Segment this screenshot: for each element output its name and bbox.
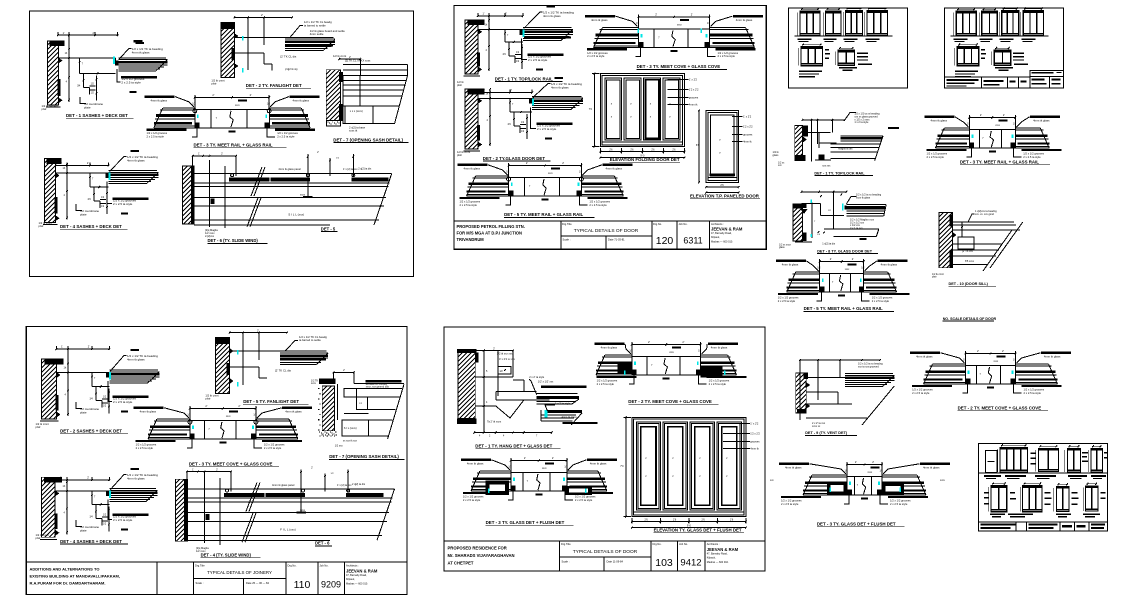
svg-text:Drg.No.: Drg.No.	[653, 222, 662, 226]
elevation D4 dimension lines	[632, 521, 746, 523]
svg-text:Madras — 600 010.: Madras — 600 010.	[711, 241, 733, 244]
svg-text:plstr: plstr	[39, 224, 44, 228]
svg-text:47, Barnaby Road,: 47, Barnaby Road,	[711, 232, 732, 235]
svg-text:PROPOSED RESIDENCE FOR: PROPOSED RESIDENCE FOR	[448, 546, 507, 551]
loose L5 corner blocks	[820, 287, 825, 293]
detail D1 vertical dims	[483, 351, 485, 434]
detail D1 top dim	[475, 350, 513, 352]
svg-text:Architects :: Architects :	[707, 542, 720, 546]
svg-text:DET - 2 TY. MEET COVE + GLAS: DET - 2 TY. MEET COVE + GLASS COVE	[628, 399, 712, 404]
svg-text:1/2 x 1/2 grooves: 1/2 x 1/2 grooves	[927, 151, 948, 155]
detail D1 lower planks	[548, 410, 583, 413]
detail C3 dimension lines	[190, 408, 256, 410]
svg-text:xxxx, xxx gsnrnd dds: xxxx, xxx gsnrnd dds	[366, 386, 390, 389]
svg-text:AT CHETPET: AT CHETPET	[448, 561, 474, 566]
svg-text:DET - 3 TY. MEET COVE + GLAS: DET - 3 TY. MEET COVE + GLASS COVE	[189, 461, 273, 466]
mini captions row 1	[954, 38, 968, 40]
svg-text:Maglia ta dts: Maglia ta dts	[838, 147, 853, 150]
loose L8 leader notes	[779, 463, 809, 466]
svg-text:plate: plate	[80, 410, 87, 414]
svg-text:DET - 2 SASHES + DECK DET: DET - 2 SASHES + DECK DET	[60, 429, 122, 434]
svg-text:DET - 5 TY. FANLIGHT DET: DET - 5 TY. FANLIGHT DET	[243, 399, 299, 404]
detail C7 sash trapezoid	[354, 382, 404, 384]
svg-text:2 x 2.5 ta style: 2 x 2.5 ta style	[277, 135, 295, 139]
detail C1 wall section	[42, 359, 57, 419]
detail A3 leader notes	[145, 95, 175, 98]
svg-text:4mm tk glass: 4mm tk glass	[127, 476, 145, 480]
detail B2 frame section	[478, 97, 532, 99]
L3 lower leaf	[833, 228, 878, 230]
L1 leader notes	[845, 113, 856, 120]
detail C1 dimension lines	[56, 348, 109, 350]
svg-text:4mm tk glass: 4mm tk glass	[132, 50, 150, 54]
detail C2 wall section	[215, 338, 229, 394]
elevation B4 dimension lines	[600, 151, 684, 153]
detail B6 left planks	[476, 175, 509, 177]
svg-text:4mm tk glass: 4mm tk glass	[590, 462, 607, 466]
mini sheet 3 caption blobs row1	[984, 475, 1001, 477]
svg-text:1' x 2'2: 1' x 2'2	[750, 421, 759, 425]
svg-text:4mm tk glass: 4mm tk glass	[151, 98, 168, 102]
detail C4 leader notes	[110, 475, 126, 490]
svg-text:JEEVAN & RAM: JEEVAN & RAM	[711, 227, 743, 232]
svg-text:DET - 1 TY. TOP/LOCK RAIL: DET - 1 TY. TOP/LOCK RAIL	[814, 171, 865, 175]
svg-text:Date 11-09-84: Date 11-09-84	[607, 560, 624, 564]
svg-text:2 x 2.5 ta style: 2 x 2.5 ta style	[147, 135, 165, 139]
svg-text:1/2 x 1/2 grooves: 1/2 x 1/2 grooves	[1023, 151, 1044, 155]
svg-text:[2' TK xxx: [2' TK xxx	[962, 250, 974, 253]
detail A6 right dim risers	[307, 154, 309, 176]
svg-text:TYPICAL DETAILS OF DOOR: TYPICAL DETAILS OF DOOR	[574, 228, 639, 234]
loose L7 corner blocks	[966, 379, 971, 385]
svg-text:1 x 2 ta style: 1 x 2 ta style	[854, 121, 869, 124]
detail B3 corner blocks	[639, 42, 644, 48]
svg-text:JEEVAN & RAM: JEEVAN & RAM	[707, 547, 739, 552]
detail C7 wall section	[322, 386, 334, 431]
detail C4 step web	[95, 504, 97, 518]
svg-text:Kilpauk,: Kilpauk,	[346, 578, 355, 581]
svg-text:DET - 3 TY. GLASS DET + FLUS: DET - 3 TY. GLASS DET + FLUSH DET	[817, 522, 896, 527]
L4 wall section	[939, 213, 952, 268]
svg-text:Date 71-03-81: Date 71-03-81	[608, 238, 625, 242]
detail B6 centre rail box	[509, 178, 582, 197]
svg-text:xxxx: xxxx	[300, 194, 306, 197]
detail D2 centre rail box	[632, 357, 701, 376]
svg-text:2 x 2.5 ta style: 2 x 2.5 ta style	[113, 518, 133, 522]
detail A3 centre rail box	[195, 109, 269, 128]
svg-text:DET - 2 TY. MEET COVE + GLAS: DET - 2 TY. MEET COVE + GLASS COVE	[958, 406, 1042, 411]
svg-text:DET - 4 SASHES + DECK DET: DET - 4 SASHES + DECK DET	[60, 224, 122, 229]
svg-text:plate: plate	[80, 212, 87, 216]
detail C1 wall base note	[40, 420, 58, 422]
svg-text:9209: 9209	[321, 580, 341, 590]
svg-text:4mm settle: 4mm settle	[310, 32, 324, 36]
detail D1 small dim boxes	[498, 367, 511, 375]
svg-text:4mm tk glass: 4mm tk glass	[127, 357, 145, 361]
detail A6 sill planks	[229, 178, 269, 182]
svg-text:Scale :: Scale :	[562, 560, 570, 564]
svg-text:Kilpauk,: Kilpauk,	[711, 236, 720, 239]
elevation B5 outer frame	[706, 111, 739, 183]
svg-text:[2' TK CL dts: [2' TK CL dts	[275, 369, 292, 373]
svg-text:4mm tk glass: 4mm tk glass	[782, 263, 799, 267]
detail B2 leader notes	[533, 84, 550, 98]
svg-text:TRIVANDRUM: TRIVANDRUM	[457, 237, 485, 242]
detail D2 corner blocks	[632, 370, 637, 376]
detail A7 top frame lines	[343, 64, 407, 66]
detail C3 left planks	[157, 418, 190, 420]
detail B3 centre rail box	[639, 29, 710, 48]
detail D2 black blocks	[618, 363, 632, 374]
svg-text:1 x 2' ta style: 1 x 2' ta style	[555, 401, 571, 405]
svg-text:2 x 2.5 ta style: 2 x 2.5 ta style	[528, 58, 548, 62]
loose L5 dimension lines	[820, 261, 864, 263]
detail A6 dim lines	[193, 155, 236, 157]
detail A3 left planks	[163, 107, 195, 109]
loose L8 centre rail box	[847, 477, 882, 496]
svg-text:Drg.No.: Drg.No.	[288, 564, 297, 568]
svg-text:1/2 x 1/2 grooves: 1/2 x 1/2 grooves	[709, 378, 730, 382]
svg-text:plstr: plstr	[42, 107, 47, 111]
svg-text:4mm tk glass: 4mm tk glass	[931, 119, 948, 123]
detail B2 shutter planks	[529, 99, 532, 104]
svg-text:2 x 2.5 ta style: 2 x 2.5 ta style	[872, 299, 890, 303]
detail B3 right planks	[710, 26, 746, 28]
svg-text:DET - 3 TY. MEET RAIL + GLAS: DET - 3 TY. MEET RAIL + GLASS RAIL	[960, 160, 1039, 165]
sheet C title block	[26, 561, 407, 563]
detail B3 left planks	[603, 26, 639, 28]
detail D2 leader notes	[595, 343, 625, 346]
svg-text:DET - 9 (TY. VENT DET): DET - 9 (TY. VENT DET)	[805, 431, 848, 435]
svg-text:plstr: plstr	[932, 276, 937, 279]
L3 planks	[845, 206, 847, 210]
svg-text:DET - 1 SASHES + DECK DET: DET - 1 SASHES + DECK DET	[66, 113, 128, 118]
mini sheet border	[945, 8, 1064, 88]
svg-text:110: 110	[294, 579, 311, 591]
svg-text:Drg.Title: Drg.Title	[562, 222, 572, 226]
svg-text:4mm tk glass panel: 4mm tk glass panel	[272, 483, 295, 487]
svg-text:1/2 x 1/2 grooves: 1/2 x 1/2 grooves	[589, 199, 610, 203]
mini ground line row 1	[951, 35, 1049, 37]
svg-text:xx xxx tk xxx: xx xxx tk xxx	[343, 439, 358, 442]
svg-text:4mm tk glass: 4mm tk glass	[736, 18, 753, 22]
svg-text:DET - 2 TY.GLASS DOOR DET: DET - 2 TY.GLASS DOOR DET	[483, 156, 546, 161]
svg-text:DET - 5 TY. MEET RAIL + GLAS: DET - 5 TY. MEET RAIL + GLASS RAIL	[804, 306, 883, 311]
detail A2 wall section	[221, 23, 234, 78]
svg-text:xxxx: xxxx	[300, 509, 306, 512]
detail B1 extra plank bar	[524, 37, 571, 39]
detail C3 centre rail box	[190, 421, 256, 440]
svg-text:FOR M/S MGA AT D.P.I JUNCTIO: FOR M/S MGA AT D.P.I JUNCTION	[457, 231, 523, 236]
svg-text:DET - 7 (OPENING SASH DETAIL): DET - 7 (OPENING SASH DETAIL)	[329, 454, 399, 459]
svg-text:ELEVATION TY. GLASS DET + FLU: ELEVATION TY. GLASS DET + FLUSH DET	[654, 528, 742, 533]
mini sheet 3 door leaf	[985, 450, 997, 472]
detail C3 leader notes	[134, 407, 164, 410]
mini sheet 3 row1 glyphs	[1000, 448, 1028, 473]
detail A4 dimension lines	[55, 165, 108, 167]
mini sheet 3 caption blobs row2	[990, 514, 1005, 516]
detail A1 wall section	[47, 41, 58, 105]
svg-text:S I L (xxxx): S I L (xxxx)	[344, 426, 357, 430]
svg-text:1/2 x 1/2 grooves: 1/2 x 1/2 grooves	[718, 51, 739, 55]
svg-text:plstr: plstr	[457, 153, 462, 157]
mini row 2 notes	[1013, 53, 1024, 54]
detail D2 right planks	[701, 354, 728, 356]
detail C1 frame section	[56, 372, 109, 374]
detail A7 dimension lines	[339, 58, 360, 60]
svg-text:grooves: grooves	[743, 133, 753, 137]
svg-text:Kilpauk,: Kilpauk,	[707, 557, 716, 560]
detail C4 frame section	[55, 490, 109, 492]
svg-text:DET - 1 TY. HANG DET + GLASS: DET - 1 TY. HANG DET + GLASS DET	[475, 444, 552, 449]
svg-text:1'2 x 2'2: 1'2 x 2'2	[689, 88, 699, 92]
detail C4 wall base note	[40, 538, 57, 540]
detail B1 step web	[508, 42, 510, 56]
mini title bottom strip	[945, 76, 1030, 78]
elevation D4 left dim	[625, 417, 627, 516]
detail B6 leader notes	[458, 164, 488, 167]
loose L5 left planks	[796, 271, 820, 273]
detail C7 stipple plaster band	[318, 388, 319, 389]
svg-text:Scale :: Scale :	[196, 581, 204, 585]
svg-text:plstr: plstr	[211, 82, 216, 86]
svg-text:2 x 2.5 ta style: 2 x 2.5 ta style	[778, 299, 796, 303]
detail C6 wall section	[175, 479, 187, 541]
detail D2 dimension lines	[632, 344, 701, 346]
svg-text:1/2 x 1/2 grooves: 1/2 x 1/2 grooves	[147, 131, 168, 135]
elevation B4 leader notes	[668, 79, 689, 81]
svg-text:4mm tk: 4mm tk	[689, 103, 698, 107]
L3 leader notes	[846, 197, 856, 205]
svg-text:TYPICAL DETAILS OF DOOR: TYPICAL DETAILS OF DOOR	[573, 549, 638, 555]
detail B1 main vertical dim	[488, 16, 490, 71]
svg-text:Madras — 600 010.: Madras — 600 010.	[346, 583, 368, 586]
sheet D title block	[444, 540, 765, 542]
detail B2 main vertical dim	[489, 93, 491, 147]
svg-text:6311: 6311	[683, 236, 702, 246]
mini sheet 3 (bottom right)	[979, 443, 1108, 531]
svg-text:4mm tk glass: 4mm tk glass	[543, 14, 561, 18]
svg-text:4mm tk glass: 4mm tk glass	[467, 462, 484, 466]
elevation B4 bottom rail	[602, 141, 682, 143]
mini sheet 3 divider	[979, 472, 1108, 474]
svg-text:2 x 2.5 ta style: 2 x 2.5 ta style	[537, 127, 557, 131]
svg-text:1/2 x 1/2 grooves: 1/2 x 1/2 grooves	[587, 51, 608, 55]
loose L7 leader notes	[910, 352, 940, 355]
svg-text:1' x [2] ta xxx: 1' x [2] ta xxx	[343, 168, 358, 171]
svg-text:4mm tk glass: 4mm tk glass	[711, 346, 728, 350]
svg-text:4mm tk glass: 4mm tk glass	[562, 415, 578, 419]
svg-text:DET - 8 TY. GLASS DOOR DET: DET - 8 TY. GLASS DOOR DET	[817, 249, 873, 253]
svg-text:47, Barnaby Road,: 47, Barnaby Road,	[707, 552, 728, 555]
svg-text:xxxx: xxxx	[311, 382, 317, 385]
detail A4 shutter planks	[105, 173, 108, 178]
svg-text:2 x 2.5 ta style: 2 x 2.5 ta style	[113, 400, 133, 404]
loose L2 centre rail box	[969, 130, 1015, 149]
detail D3 corner blocks	[511, 486, 516, 492]
svg-text:1/2 x 1/2 grooves: 1/2 x 1/2 grooves	[778, 295, 799, 299]
svg-text:DET - 7 (OPENING SASH DETAIL): DET - 7 (OPENING SASH DETAIL)	[333, 137, 403, 142]
mini elevation row 1	[956, 11, 976, 36]
svg-text:ELEVATION T.P. PANELED DOOR: ELEVATION T.P. PANELED DOOR	[690, 194, 760, 199]
svg-text:1' x 2'2: 1' x 2'2	[689, 78, 698, 82]
loose L2 right planks	[1015, 127, 1040, 129]
detail C1 shutter planks	[106, 373, 109, 378]
mini title box right	[1030, 71, 1064, 88]
detail A4 leader notes	[110, 157, 127, 172]
detail A4 frame section	[55, 172, 108, 174]
svg-text:Date 25 — 06 — 84: Date 25 — 06 — 84	[246, 581, 269, 585]
svg-text:4mm tk glass: 4mm tk glass	[293, 98, 310, 102]
svg-text:4mm tk glass: 4mm tk glass	[591, 18, 608, 22]
mini text block bottom-left	[799, 71, 822, 72]
loose L2 left planks	[944, 127, 969, 129]
detail A1 step web	[83, 73, 85, 87]
detail B2 wall section	[465, 89, 478, 149]
detail B6 corner blocks	[509, 191, 514, 197]
svg-text:4mm tk glass: 4mm tk glass	[127, 158, 145, 162]
L6 planks	[845, 373, 893, 375]
mini ground line row 1	[795, 35, 893, 37]
svg-text:1/2 tk xxx xxx: 1/2 tk xxx xxx	[497, 352, 513, 356]
svg-text:JEEVAN & RAM: JEEVAN & RAM	[346, 569, 378, 574]
elevation B5 dims	[698, 111, 700, 183]
svg-text:p'q[2 tk sty: p'q[2 tk sty	[285, 67, 298, 71]
svg-text:2 x 2.5 ta style: 2 x 2.5 ta style	[463, 498, 481, 502]
svg-text:1/2 x 1/2 grooves: 1/2 x 1/2 grooves	[463, 494, 484, 498]
detail B2 dimension lines	[478, 92, 532, 94]
svg-text:ELEVATION FOLDING DOOR DET: ELEVATION FOLDING DOOR DET	[610, 157, 680, 162]
detail A6 wall section	[183, 166, 194, 224]
L3 frame web	[802, 203, 821, 205]
svg-text:NO. SCALE DETAILS OF DOOR: NO. SCALE DETAILS OF DOOR	[943, 317, 997, 321]
mini caption row 2	[839, 67, 857, 68]
svg-text:1/2 x 1/2 grooves: 1/2 x 1/2 grooves	[890, 498, 911, 502]
detail D3 dimension lines	[511, 460, 567, 462]
svg-text:F I L L (xxx): F I L L (xxx)	[280, 528, 296, 532]
svg-text:9412: 9412	[680, 558, 701, 569]
svg-text:4mm tk glass: 4mm tk glass	[785, 466, 802, 470]
L1 wall section	[795, 125, 803, 160]
svg-text:R.A.PURAM FOR Dr. DAMDARTHA: R.A.PURAM FOR Dr. DAMDARTHARAM.	[30, 581, 106, 586]
svg-text:DET - 6: DET - 6	[315, 541, 330, 546]
svg-text:2 x 2.5 ta style: 2 x 2.5 ta style	[589, 203, 607, 207]
svg-text:2 x 2.5 ta style: 2 x 2.5 ta style	[1023, 155, 1041, 159]
svg-text:DET - 4 (TY. SLIDE WIND): DET - 4 (TY. SLIDE WIND)	[201, 552, 252, 557]
svg-text:2 q[2] ta dts: 2 q[2] ta dts	[358, 168, 372, 171]
svg-text:Drg.Title: Drg.Title	[561, 542, 571, 546]
detail D1 wall section	[458, 353, 475, 419]
svg-text:DET - 6 (TY. SLIDE WIND): DET - 6 (TY. SLIDE WIND)	[208, 238, 259, 243]
loose L7 centre rail box	[966, 366, 1016, 385]
svg-text:2 x 2.5 ta style: 2 x 2.5 ta style	[136, 446, 154, 450]
detail A1 dimension lines	[58, 34, 117, 36]
detail D3 black blocks	[486, 481, 509, 496]
detail C3 right planks	[256, 418, 289, 420]
svg-text:Scale :: Scale :	[563, 238, 571, 242]
svg-text:Job No.: Job No.	[320, 564, 329, 568]
svg-text:DET - 1 TY. TOP/LOCK RAIL: DET - 1 TY. TOP/LOCK RAIL	[495, 76, 553, 81]
mini elevation row 2	[957, 47, 979, 66]
detail A6 break marks	[254, 167, 265, 196]
elevation B4 left dim	[593, 74, 595, 147]
L3 wall section	[793, 208, 802, 241]
svg-text:2 x 2.5 ta style: 2 x 2.5 ta style	[912, 391, 930, 395]
svg-text:Ta 2' tk xxxx: Ta 2' tk xxxx	[487, 420, 502, 424]
mini sheet 3 title strip	[979, 521, 1108, 523]
L3 dim lines	[802, 191, 847, 193]
detail B6 right planks	[581, 175, 614, 177]
L6 frame lines	[806, 377, 845, 379]
detail B6 dimension lines	[509, 165, 582, 167]
svg-text:x x x (xxxx): x x x (xxxx)	[350, 109, 363, 113]
detail C7 sill box	[342, 420, 368, 436]
sheet B title block	[454, 220, 766, 222]
svg-text:PROPOSED PETROL FILLING STN.: PROPOSED PETROL FILLING STN.	[457, 224, 525, 229]
svg-text:2 x 2.5 ta style: 2 x 2.5 ta style	[1024, 391, 1042, 395]
detail D3 right planks	[567, 470, 598, 472]
svg-text:DET - 10 (DOOR SILL): DET - 10 (DOOR SILL)	[949, 282, 989, 286]
detail C4 main vertical dim	[66, 480, 68, 534]
mini caption row 2	[995, 67, 1013, 68]
svg-text:Drg.No.: Drg.No.	[653, 542, 662, 546]
detail A1 wood blob	[134, 40, 143, 42]
svg-text:ADDITIONS AND ALTERNATIONS: ADDITIONS AND ALTERNATIONS TO	[30, 567, 100, 572]
svg-text:4mm tk glass: 4mm tk glass	[285, 410, 302, 414]
detail A1 main vertical dim	[68, 35, 70, 102]
svg-text:103: 103	[655, 557, 673, 569]
loose L8 right planks	[882, 474, 917, 476]
svg-text:1/2 xxx: 1/2 xxx	[335, 444, 344, 447]
detail A7 sash frame	[343, 76, 407, 124]
svg-text:DET - 3 TY. GLASS DET + FLUS: DET - 3 TY. GLASS DET + FLUSH DET	[486, 520, 565, 525]
detail B3 leader notes	[585, 15, 615, 18]
loose L5 right planks	[864, 271, 888, 273]
svg-text:xxx ta xxx grooved: xxx ta xxx grooved	[858, 365, 879, 368]
detail A4 wall base note	[43, 224, 58, 226]
svg-text:1/2 x 1/2 grooves: 1/2 x 1/2 grooves	[1024, 387, 1045, 391]
detail A3 right planks	[269, 107, 301, 109]
svg-text:xxx. xx. xxx gsnd: xxx. xx. xxx gsnd	[975, 213, 995, 216]
svg-text:4mm tk glass: 4mm tk glass	[464, 167, 481, 171]
svg-text:4mm tk glass: 4mm tk glass	[601, 346, 618, 350]
svg-text:Job No.: Job No.	[679, 222, 688, 226]
svg-text:DET - 5: DET - 5	[321, 226, 336, 231]
detail C6 right dim risers	[300, 470, 302, 492]
detail C1 step web	[95, 387, 97, 401]
svg-text:S I L L (xxx): S I L L (xxx)	[288, 213, 304, 217]
detail C6 wall edge strips	[184, 484, 187, 500]
detail B1 leader notes	[524, 12, 543, 29]
svg-text:4mm tk glass: 4mm tk glass	[916, 355, 933, 359]
svg-text:plstr: plstr	[36, 536, 41, 540]
detail C4 dimension lines	[55, 479, 109, 481]
mini text block bottom-left	[955, 71, 978, 72]
svg-text:1/2 x 1/2 grooves: 1/2 x 1/2 grooves	[597, 378, 618, 382]
L1 planks	[841, 135, 883, 137]
elevation B5 leader notes	[732, 116, 743, 118]
elevation D4 bottom rail	[634, 511, 744, 513]
svg-text:Job No.: Job No.	[679, 542, 688, 546]
L8 black blocks	[827, 482, 847, 495]
svg-text:4mm tk glass: 4mm tk glass	[923, 466, 940, 470]
svg-text:2 x 2.5 ta style: 2 x 2.5 ta style	[264, 446, 282, 450]
svg-text:1'2 x 2'2: 1'2 x 2'2	[743, 125, 753, 129]
detail B1 shutter planks	[520, 30, 523, 35]
svg-text:Architects :: Architects :	[346, 564, 359, 568]
detail D3 leader notes	[461, 459, 491, 462]
svg-text:Drg.Title: Drg.Title	[195, 564, 205, 568]
